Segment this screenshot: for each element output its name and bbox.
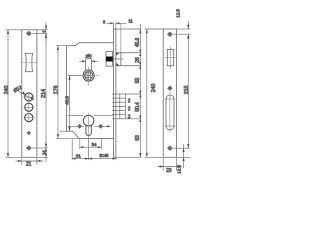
cylinder fixing hole right diamond bbox=[99, 124, 103, 128]
svg-text:11: 11 bbox=[128, 19, 133, 24]
faceplate bottom extension bbox=[116, 156, 141, 158]
chain arrows bbox=[139, 29, 141, 157]
top edge extension right bbox=[177, 28, 191, 30]
dimension 12.5 bottom bbox=[183, 144, 185, 168]
hole circle 1 bbox=[23, 92, 34, 102]
svg-text:21: 21 bbox=[26, 162, 32, 168]
faceplate edge view bbox=[113, 29, 116, 157]
extension line y115.4 bbox=[68, 114, 84, 116]
bottom screw hole diamond bbox=[26, 146, 31, 151]
dimension 34 bbox=[80, 139, 102, 149]
svg-text:215: 215 bbox=[184, 86, 190, 95]
svg-text:214: 214 bbox=[41, 89, 47, 98]
small diamond hole bbox=[27, 131, 31, 135]
dimension 21 (bottom of left view) bbox=[16, 158, 44, 165]
roller centerline bbox=[22, 62, 36, 64]
svg-text:176: 176 bbox=[53, 86, 59, 95]
cylinder slot obround bbox=[166, 95, 174, 130]
top screw diamond bbox=[167, 32, 172, 37]
slot centerline bbox=[169, 92, 171, 133]
leader from bottom diamond bbox=[32, 147, 48, 149]
svg-text:23: 23 bbox=[166, 168, 172, 174]
dimension 12.5 top bbox=[187, 21, 189, 29]
latch bolt block in case bbox=[106, 52, 113, 67]
dimension 3 (faceplate thickness) bbox=[107, 22, 127, 29]
leader from top diamond bbox=[32, 33, 48, 35]
svg-text:48.5: 48.5 bbox=[65, 96, 70, 105]
dimension 214 line bbox=[45, 34, 47, 149]
svg-text:3.4: 3.4 bbox=[127, 114, 131, 118]
svg-text:45.6: 45.6 bbox=[135, 38, 141, 48]
hub centerlines bbox=[78, 75, 100, 77]
extension spindle center to left bbox=[68, 75, 81, 77]
lock case outline bbox=[67, 43, 114, 139]
latch cutout bbox=[167, 49, 173, 65]
fixing holes leader line bbox=[68, 125, 84, 127]
svg-text:26: 26 bbox=[135, 57, 141, 63]
dimension 176 line bbox=[56, 46, 79, 139]
hole circle 3 bbox=[23, 113, 34, 123]
plate outline bbox=[163, 29, 176, 157]
svg-text:13: 13 bbox=[42, 150, 47, 155]
svg-text:34: 34 bbox=[92, 142, 97, 147]
bottom edge extension right bbox=[177, 156, 191, 158]
bottom screw diamond bbox=[167, 146, 172, 151]
euro cylinder hole bbox=[83, 115, 94, 126]
slot ticks bbox=[165, 98, 176, 100]
latch head protruding bbox=[116, 53, 141, 66]
svg-text:3.4: 3.4 bbox=[127, 106, 131, 110]
deadbolt stack bbox=[112, 94, 125, 119]
svg-text:31: 31 bbox=[76, 153, 81, 158]
latch centerline bbox=[113, 58, 123, 60]
svg-text::45: :45 bbox=[103, 153, 109, 158]
cylinder centerline bbox=[88, 113, 90, 139]
plate outline bbox=[22, 30, 37, 158]
screw hole diamond top bbox=[26, 31, 31, 36]
svg-text:3.4: 3.4 bbox=[127, 98, 131, 102]
svg-text:50.4: 50.4 bbox=[135, 102, 141, 112]
follower top slot bbox=[86, 59, 92, 70]
leader from bottom diamond bbox=[173, 147, 191, 149]
roller bbox=[25, 53, 33, 71]
dimension chain right of case: line bbox=[139, 24, 141, 157]
dimension 11 (latch protrusion) bbox=[120, 23, 122, 53]
leader from top diamond bbox=[173, 33, 191, 35]
dimension 48.5 line bbox=[69, 76, 71, 132]
svg-text:Ø8: Ø8 bbox=[86, 54, 92, 59]
svg-text:63: 63 bbox=[135, 135, 141, 141]
spindle follower hub bbox=[83, 70, 94, 81]
hole circle 2 bbox=[23, 102, 34, 112]
latch bolt black band bbox=[106, 57, 113, 62]
svg-text:12.5: 12.5 bbox=[175, 9, 180, 18]
svg-text:55: 55 bbox=[135, 78, 141, 84]
latch bevel marks bbox=[116, 53, 119, 66]
dimension 2 (top right of left view) bbox=[37, 23, 48, 42]
faceplate top extension to right bbox=[113, 28, 141, 30]
dimension 23 bbox=[158, 158, 183, 170]
latch cutout centerlines bbox=[170, 46, 172, 69]
middle screw diamond bbox=[168, 86, 173, 91]
dimension 13 (bottom right of left view) bbox=[45, 142, 47, 162]
dimension 240 line bbox=[145, 29, 163, 157]
cylinder fixing hole left diamond bbox=[77, 124, 81, 128]
deadbolt extensions bbox=[125, 93, 141, 95]
dimension 240 line bbox=[6, 30, 22, 158]
dimension 240 arrows bbox=[7, 30, 9, 158]
leader Ø12 bbox=[15, 89, 35, 101]
dimension 215 line bbox=[187, 34, 189, 148]
svg-text:240: 240 bbox=[4, 86, 10, 95]
svg-text:240: 240 bbox=[151, 84, 157, 93]
bottom dims 31 and B:45 bbox=[72, 139, 116, 161]
dimension Ø8 bbox=[79, 60, 98, 62]
